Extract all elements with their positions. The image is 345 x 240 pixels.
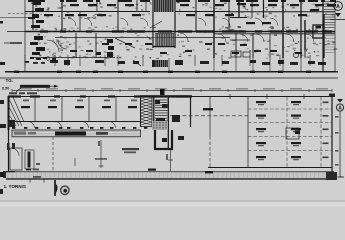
lower plan: room right of core — [172, 96, 213, 140]
section marker A (top-right) — [330, 2, 345, 20]
title 1. TORNIS — [4, 184, 26, 189]
top plan: right balcony ladder rungs — [324, 2, 335, 53]
lower plan: storage room dividers — [8, 97, 141, 122]
lower plan: equipment box at grid — [286, 128, 300, 139]
top plan: leader lines — [115, 21, 162, 66]
lower plan: top exterior wall — [8, 96, 332, 98]
section marker A (right) — [335, 99, 344, 177]
lower plan: storage doors arcs — [28, 122, 116, 129]
lower plan: ramp foot dark block — [8, 120, 15, 127]
lower thin ground line — [0, 77, 338, 79]
lower plan: hall bay labels — [256, 101, 329, 160]
bottom sheet margin strip — [0, 202, 345, 208]
top plan: left service core dark cluster — [30, 2, 45, 55]
sheet edge line bottom — [0, 200, 345, 202]
lower plan: dimension vertical x170 — [166, 150, 173, 171]
top plan: door swing arcs — [47, 18, 314, 52]
lower plan: dashed column axis (vert, left) — [52, 137, 54, 171]
svg-text:A: A — [336, 4, 340, 10]
top plan: interior horizontal walls — [0, 12, 335, 58]
top plan: bathroom fixtures right — [231, 51, 299, 58]
svg-text:8.50: 8.50 — [2, 87, 9, 91]
lower plan: small tick x75 — [75, 158, 107, 166]
sheet left margin marks — [0, 21, 6, 194]
lower plan: hall bottom wall — [208, 167, 332, 169]
lower plan: left end dark cluster — [0, 171, 15, 178]
top plan: room name labels (row 1) — [44, 3, 336, 24]
top plan: stair lower hatch — [155, 33, 174, 46]
lower plan: stair stipple below — [152, 121, 168, 130]
top plan: dimension text cluster (left) — [25, 57, 56, 64]
lower plan: dimension vertical x101 — [98, 140, 104, 168]
top plan: stair core hatched block — [154, 0, 174, 12]
lower plan: ramp cross-hatch block — [140, 97, 152, 127]
lower plan: dimension blob above core — [160, 89, 165, 95]
top plan: fine print speckle texture — [31, 2, 337, 59]
top plan: mid-left duct cluster — [96, 39, 114, 57]
lower plan: lower-left store rooms — [7, 143, 40, 170]
lower plan: stair treads — [155, 100, 168, 123]
lower plan: top wall dark segments — [8, 95, 188, 97]
top plan: column grid ticks above ground line — [25, 55, 323, 71]
lower plan: hall dashed grid — [230, 94, 332, 168]
lower plan: waste room annotation text — [122, 148, 139, 153]
top plan: central corridor line with door/wall blobs — [25, 30, 335, 37]
detail marker circle (bottom) — [54, 180, 69, 196]
top plan: lower room fixtures/labels band — [50, 60, 326, 67]
top plan: lower stair hatch lines — [156, 60, 167, 67]
lower plan: access road hatched band with name — [12, 130, 141, 137]
ticks near tornis — [30, 176, 44, 183]
svg-text:A: A — [338, 106, 342, 112]
lower plan: dashed column axis x210 — [209, 97, 211, 169]
lower plan: left exterior wall — [8, 96, 10, 172]
lower plan: ticks above road band — [12, 127, 147, 129]
lower plan: door marks on bottom wall — [148, 169, 213, 174]
lower plan: bottom wall right end block — [326, 172, 344, 180]
lower plan: dashed section line A-A — [170, 115, 248, 117]
ground level heavy line — [5, 71, 338, 73]
top plan: room name labels (row 2) — [28, 17, 302, 54]
lower plan dimension line with figures — [9, 88, 332, 94]
top plan: interior vertical walls — [25, 0, 335, 72]
top plan: stair core walls — [153, 0, 175, 48]
top plan: exterior wall (top, with window gaps) — [28, 0, 336, 2]
svg-text:TG.: TG. — [6, 78, 14, 83]
top plan: corridor line left extension — [7, 31, 25, 33]
lower plan: core walls — [140, 95, 192, 150]
svg-text:1. TORNIS: 1. TORNIS — [4, 184, 26, 189]
label TG. — [6, 78, 14, 83]
top plan: dashed reference line (top-left) — [8, 13, 33, 15]
top plan: lift shaft box right — [305, 14, 324, 58]
annotation bar with arrow (SKICE) — [16, 85, 59, 92]
lower plan: stair U-walls — [155, 130, 172, 149]
lower plan: right exterior wall — [329, 94, 335, 181]
top plan: dimension arrow left — [4, 42, 22, 43]
lower plan: storage room labels — [21, 100, 137, 109]
lower plan: corner ramp diagonals — [9, 97, 24, 126]
lower plan: bottom exterior wall band (hatched) — [6, 172, 334, 179]
level text 8.5 — [2, 87, 9, 91]
ground line tick blobs — [14, 71, 311, 73]
